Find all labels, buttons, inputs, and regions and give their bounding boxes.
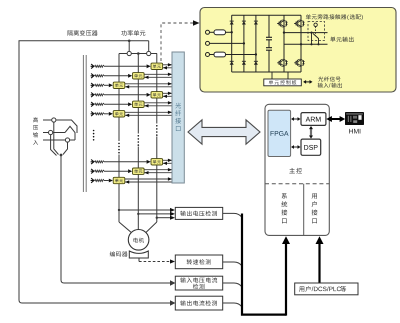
DC top bus xyxy=(232,14,301,16)
arrowhead into unit box row 6 xyxy=(125,114,129,117)
output current detection box 输出电流检测 xyxy=(175,296,222,310)
arrowhead into output current detection box xyxy=(170,300,176,306)
unit control board wires xyxy=(272,72,288,79)
cell input wire 2 xyxy=(210,42,244,44)
capacitor C1 xyxy=(266,37,272,40)
label 功率单元 xyxy=(121,30,126,35)
arrowhead at fiber bar row 9 xyxy=(168,177,172,180)
bypass contactor dashed box xyxy=(308,22,325,41)
fiber rx wire fiber bar to unit row 5 xyxy=(144,105,172,107)
diode D5 (lower) xyxy=(242,61,246,64)
arrowhead at fiber bar row 8 xyxy=(168,168,172,171)
fiber interface bar 光纤接口 xyxy=(172,52,184,183)
fuse F1 xyxy=(210,31,215,33)
dashed reference line from power unit xyxy=(161,23,193,61)
junction dot on top wire xyxy=(128,40,131,43)
wire column W to motor xyxy=(146,222,157,233)
label 光纤接口 (vertical) xyxy=(175,103,181,131)
ellipsis dots column V xyxy=(138,135,140,137)
wire column 1 to output voltage detection xyxy=(118,209,120,211)
label 单元输出 xyxy=(330,37,335,42)
dashed divider in main control box xyxy=(265,183,329,185)
ellipsis dots column W xyxy=(156,125,158,127)
fiber tx wire unit row 6 to fiber bar xyxy=(125,111,172,113)
HMI icon xyxy=(345,112,364,125)
wire winding to unit row 7 xyxy=(104,161,147,163)
small arrow FPGA-ARM xyxy=(293,118,299,120)
user DCS/PLC box xyxy=(295,283,358,295)
ellipsis dots column U xyxy=(118,143,120,145)
wire winding to unit row 2 xyxy=(104,75,128,77)
wire column U to motor xyxy=(119,222,131,233)
capacitor C2 xyxy=(266,48,272,51)
fiber tx wire unit row 5 to fiber bar xyxy=(144,102,172,104)
arrowhead into unit box row 9 xyxy=(125,180,129,183)
wire fuse3 to rectifier leg3 xyxy=(226,54,256,56)
IGBT Q3 (upper) xyxy=(296,20,303,27)
arrowhead into unit row 1 xyxy=(147,64,151,68)
fiber tx wire unit row 3 to fiber bar xyxy=(125,83,172,85)
diode D1 (upper) xyxy=(230,21,234,24)
interface divider vertical xyxy=(303,184,305,236)
diode D2 (upper) xyxy=(242,21,246,24)
thick riser to system interface xyxy=(285,243,287,316)
fiber tx wire unit row 8 to fiber bar xyxy=(144,169,172,171)
secondary winding row 7 xyxy=(91,160,94,165)
secondary winding row 4 xyxy=(91,93,94,98)
arrowhead into unit row 4 xyxy=(147,93,151,97)
cell input terminal 1 xyxy=(206,30,210,34)
bypass contactor coil circle xyxy=(314,23,317,26)
HV tap wire from terminal 3 xyxy=(63,142,68,154)
cell input terminal 2 xyxy=(206,41,210,45)
wire winding to unit row 6 xyxy=(104,113,109,115)
small fiber double arrow xyxy=(305,81,311,83)
thick arrow ARM-HMI xyxy=(331,118,342,120)
label 单元旁路接触器(选配) xyxy=(306,14,311,19)
fiber tx wire unit row 4 to fiber bar xyxy=(163,92,172,94)
diode D4 (lower) xyxy=(230,61,234,64)
arrowhead at fiber bar row 2 xyxy=(168,73,172,76)
H-bridge leg 1 xyxy=(283,15,285,72)
wire speed detection to bus xyxy=(223,262,242,266)
arrowhead into unit row 6 xyxy=(109,112,113,116)
arrowhead at fiber bar row 3 xyxy=(168,82,172,85)
power unit box A1 xyxy=(151,63,163,69)
HV tap junction dot xyxy=(60,154,63,157)
label 主控 xyxy=(289,168,295,173)
connector circle left xyxy=(127,51,131,55)
fiber tx wire unit row 1 to fiber bar xyxy=(163,64,172,66)
arrowhead into input voltage/current detection box xyxy=(170,280,176,286)
arrowhead into power-cell detail box xyxy=(193,20,200,26)
fiber rx wire fiber bar to unit row 9 xyxy=(125,181,172,183)
phase column U xyxy=(118,54,120,223)
rectifier leg 1 xyxy=(231,15,233,72)
HV input phase wire 2 xyxy=(43,132,65,134)
power unit box B1 xyxy=(133,73,145,79)
fiber tx wire unit row 9 to fiber bar xyxy=(125,178,172,180)
fuse F3 xyxy=(210,54,215,56)
arrowhead at fiber bar row 1 xyxy=(168,63,172,66)
wire winding to unit row 8 xyxy=(104,170,128,172)
DC-link wire xyxy=(268,15,270,72)
arrowhead into unit row 9 xyxy=(109,179,113,183)
power unit box B2 xyxy=(133,101,145,107)
fiber tx wire unit row 2 to fiber bar xyxy=(144,73,172,75)
phase column V xyxy=(137,54,139,223)
H-bridge leg 2 xyxy=(300,15,302,72)
wire output voltage detection to bus xyxy=(223,213,242,217)
junction dot middle column top xyxy=(137,52,140,55)
rectifier leg 3 xyxy=(255,15,257,72)
cell output wire upper xyxy=(284,32,328,34)
speed detection box 转速检测 xyxy=(175,255,222,269)
fiber tx wire unit row 7 to fiber bar xyxy=(163,159,172,161)
arrowhead into unit box row 5 xyxy=(144,104,148,107)
fiber rx wire fiber bar to unit row 7 xyxy=(163,162,172,164)
wire output-current feedback (left outer loop) xyxy=(19,41,171,303)
arrowhead at fiber bar row 5 xyxy=(168,101,172,104)
arrowhead into unit row 5 xyxy=(128,102,132,106)
wire drop to left connector circle xyxy=(128,41,130,52)
secondary winding row 6 xyxy=(91,112,94,117)
small arrow ARM-DSP (vertical) xyxy=(310,129,311,136)
delta-winding peak xyxy=(65,126,75,140)
FPGA box xyxy=(268,110,291,156)
label DSP xyxy=(304,145,308,150)
fiber rx wire fiber bar to unit row 4 xyxy=(163,95,172,97)
arrowhead into unit row 2 xyxy=(128,74,132,78)
diode D6 (lower) xyxy=(254,61,258,64)
arrowhead into unit box row 8 xyxy=(144,171,148,174)
big double-headed arrow fiber-to-control xyxy=(188,120,260,144)
IGBT Q2 (lower) xyxy=(279,59,286,66)
IGBT Q4 (lower) xyxy=(296,59,303,66)
HV terminal circle 3 xyxy=(65,138,69,142)
label ARM xyxy=(306,117,311,122)
wire input V/I detection to bus xyxy=(223,283,242,287)
wire column V to motor xyxy=(137,222,139,230)
HV terminal circle 2 xyxy=(49,130,53,134)
thick riser user interface xyxy=(318,243,320,283)
arrowhead into speed detection xyxy=(170,259,175,263)
wire column 2 to output voltage detection xyxy=(137,213,139,215)
wire corner drop to right connector circle xyxy=(148,41,150,52)
arrowhead into unit box row 2 xyxy=(144,76,148,79)
ellipsis dots winding column xyxy=(93,130,95,132)
label 编码器 xyxy=(110,251,115,256)
wire winding to unit row 1 xyxy=(104,65,147,67)
bypass contactor linkage (dashed) xyxy=(315,27,317,36)
DSP box xyxy=(301,139,321,155)
junction dot leg2 xyxy=(243,42,245,44)
fiber rx wire fiber bar to unit row 3 xyxy=(125,86,172,88)
arrowhead at fiber bar row 6 xyxy=(168,111,172,114)
arrowhead at fiber bar row 4 xyxy=(168,92,172,95)
power unit box Cn xyxy=(113,177,125,183)
main control box xyxy=(265,104,329,235)
label FPGA xyxy=(271,131,274,136)
secondary winding row 8 xyxy=(91,169,94,174)
power-cell detail box (yellow) xyxy=(200,8,396,93)
fiber rx wire fiber bar to unit row 1 xyxy=(163,67,172,69)
arrowhead into unit box row 1 xyxy=(163,66,167,69)
label 高压输入 (vertical) xyxy=(33,117,38,122)
secondary winding row 5 xyxy=(91,102,94,107)
power unit box A2 xyxy=(151,92,163,98)
unit control board box 单元控制板 xyxy=(264,79,302,86)
encoder stub wire xyxy=(138,258,140,262)
arrowhead into system interface xyxy=(282,236,290,244)
bypass contactor pole 1 xyxy=(311,33,313,45)
power unit box Bn xyxy=(133,168,145,174)
small arrow FPGA-DSP xyxy=(293,146,299,148)
power unit box C1 xyxy=(113,82,125,88)
dashed wire encoder to speed detection xyxy=(139,261,171,263)
thick feedback bus xyxy=(242,214,286,315)
IGBT Q1 (upper) xyxy=(279,20,286,27)
rectifier leg 2 xyxy=(243,15,245,72)
wire winding to unit row 3 xyxy=(104,84,109,86)
power unit box An xyxy=(151,159,163,165)
arrowhead into unit box row 4 xyxy=(163,95,167,98)
wire winding to unit row 5 xyxy=(104,103,128,105)
HV input phase wire 1 xyxy=(43,120,77,133)
wire output current detection to bus xyxy=(223,303,242,307)
arrowhead into unit row 3 xyxy=(109,83,113,87)
fiber rx wire fiber bar to unit row 2 xyxy=(144,76,172,78)
transformer core line 2 xyxy=(85,55,87,192)
encoder shape xyxy=(129,251,148,258)
arrowhead at fiber bar row 7 xyxy=(168,159,172,162)
HV input phase wire 3 xyxy=(43,139,75,141)
fiber rx wire fiber bar to unit row 8 xyxy=(144,172,172,174)
wire winding to unit row 9 xyxy=(104,180,109,182)
label 隔离变压器 xyxy=(67,30,72,35)
cell output wire lower xyxy=(284,43,328,45)
motor M 电机 xyxy=(128,230,149,251)
secondary winding row 3 xyxy=(91,83,94,88)
fiber rx wire fiber bar to unit row 6 xyxy=(125,114,172,116)
DC bottom bus xyxy=(232,71,301,73)
wire winding to unit row 4 xyxy=(104,94,147,96)
arrowhead into unit row 8 xyxy=(128,169,132,173)
secondary winding row 9 xyxy=(91,178,94,183)
input V/I detection box 输入电压电流检测 xyxy=(175,276,222,290)
HV terminal circle 1 xyxy=(52,118,56,122)
HV tap wire from terminal 2 xyxy=(51,135,57,156)
wire column 3 to output voltage detection xyxy=(156,217,158,219)
arrowhead into unit box row 3 xyxy=(125,85,129,88)
phase column W xyxy=(156,54,158,223)
arrowhead into user interface xyxy=(316,236,324,244)
transformer core line 1 xyxy=(82,55,84,192)
label 光纤信号/输入输出 xyxy=(318,76,323,81)
junction dot leg1 xyxy=(231,31,233,33)
label 用户接口 (vertical) xyxy=(312,193,317,198)
phase-bus tie wire xyxy=(119,53,157,55)
arrowhead into unit box row 7 xyxy=(163,162,167,165)
diode D3 (upper) xyxy=(254,21,258,24)
output voltage detection box 输出电压检测 xyxy=(175,207,222,219)
cell input terminal 3 xyxy=(206,53,210,57)
bypass contactor pole 2 with blade xyxy=(313,34,319,45)
label HMI xyxy=(349,129,353,134)
secondary winding row 1 xyxy=(91,64,94,69)
secondary winding row 2 xyxy=(91,74,94,79)
ARM box xyxy=(301,113,326,126)
power unit box C2 xyxy=(113,111,125,117)
wire input voltage/current feedback (inner loop) xyxy=(61,155,171,283)
connector circle right xyxy=(147,51,151,55)
HV tap wire from terminal 1 xyxy=(54,122,59,154)
label 系统接口 (vertical) xyxy=(282,193,287,199)
arrowhead into unit row 7 xyxy=(147,160,151,164)
